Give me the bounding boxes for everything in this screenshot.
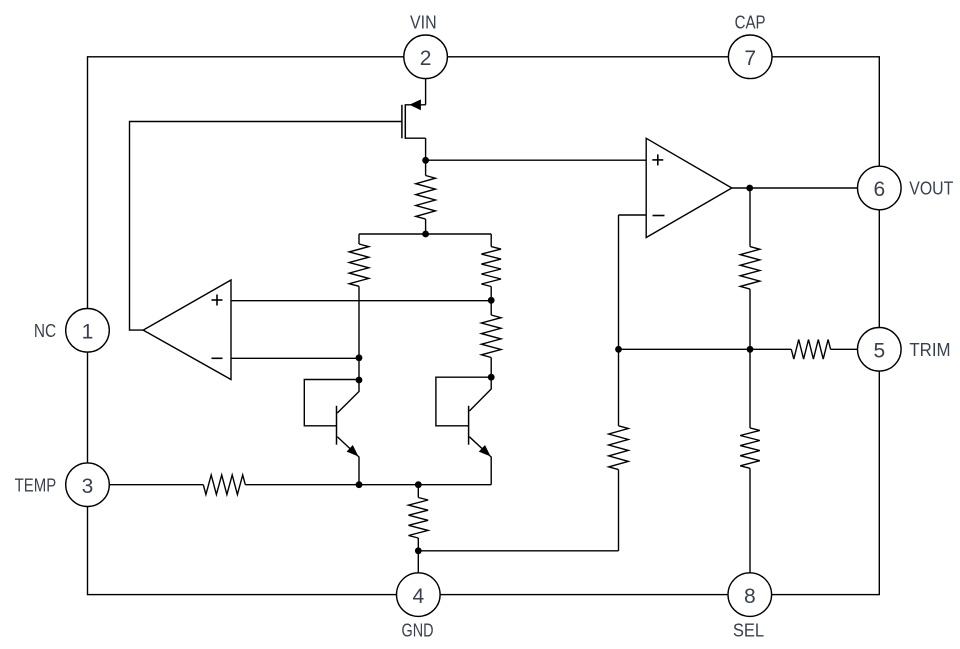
svg-text:TEMP: TEMP (15, 475, 57, 495)
svg-text:8: 8 (744, 585, 756, 608)
svg-text:7: 7 (744, 47, 756, 70)
svg-text:3: 3 (82, 475, 94, 498)
svg-text:2: 2 (420, 47, 432, 70)
svg-text:GND: GND (402, 620, 434, 640)
svg-text:4: 4 (412, 585, 424, 608)
svg-text:CAP: CAP (735, 13, 766, 33)
svg-text:NC: NC (34, 321, 56, 341)
svg-text:TRIM: TRIM (909, 340, 950, 360)
svg-text:1: 1 (82, 321, 94, 344)
svg-text:VIN: VIN (410, 13, 437, 33)
svg-text:6: 6 (873, 178, 885, 201)
svg-text:SEL: SEL (733, 620, 764, 640)
svg-text:VOUT: VOUT (909, 179, 953, 199)
svg-text:5: 5 (873, 340, 885, 363)
